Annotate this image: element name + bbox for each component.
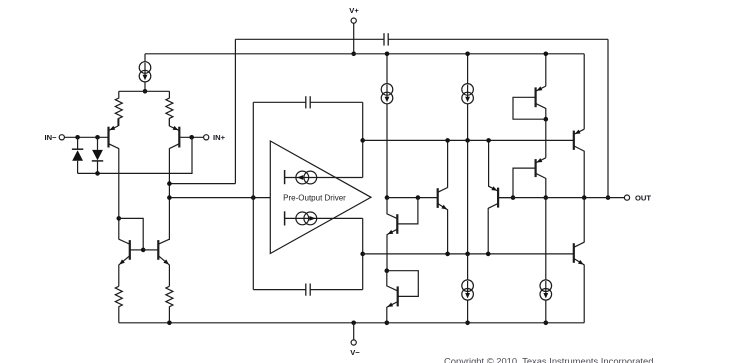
resistor R3 bbox=[115, 286, 122, 323]
node tail bbox=[143, 89, 148, 94]
diode D1 bbox=[72, 137, 83, 173]
node mirror bases bbox=[141, 248, 146, 253]
node Q9 emitter top line bbox=[486, 138, 491, 143]
wire Q12 collector to OUT bbox=[583, 198, 585, 243]
node clamp rail D2 bbox=[95, 171, 100, 176]
resistor R4 bbox=[166, 286, 173, 323]
wire IN- base line bbox=[64, 136, 107, 138]
node Q8 collector bbox=[445, 138, 450, 143]
wire Q8 emitter down bbox=[447, 210, 449, 254]
resistor R1 bbox=[115, 91, 122, 126]
wire I7 column from OUT bbox=[545, 198, 547, 280]
transistor Q2 (input PNP, non-inverting side) bbox=[169, 126, 179, 149]
resistor R2 bbox=[166, 91, 173, 126]
current source I6 column (lower) bbox=[462, 254, 474, 323]
wire Q8 collector up bbox=[447, 140, 449, 187]
node A base tie bbox=[416, 195, 421, 200]
wire V+ rail (upper supply rail) bbox=[145, 53, 584, 55]
wire compensation-cap top rail right segment bbox=[388, 38, 608, 40]
current source I7 (output sink) bbox=[540, 280, 552, 323]
transistor Q1 (input PNP, inverting side) bbox=[109, 126, 119, 149]
node rail I4 bbox=[385, 52, 390, 57]
wire I5 column middle bbox=[467, 140, 469, 254]
transistor Q5 (bias diode NPN upper) bbox=[387, 198, 418, 271]
wire Q10 collector down bbox=[545, 178, 547, 198]
svg-text:V+: V+ bbox=[349, 6, 359, 15]
transistor Q6 (bias diode NPN lower) bbox=[387, 271, 419, 323]
wire Q4 emitter down bbox=[168, 265, 170, 287]
terminal IN- bbox=[44, 133, 64, 142]
svg-text:IN+: IN+ bbox=[213, 133, 226, 142]
wire OUT line bbox=[498, 197, 624, 199]
node pre-driver feedback left bbox=[251, 195, 256, 200]
node first-stage output driver tap bbox=[167, 195, 172, 200]
transistor Q11 (output PNP top) bbox=[574, 129, 584, 151]
wire node A line bbox=[387, 197, 438, 199]
wire rail drop to input current source bbox=[144, 54, 146, 62]
node bias mid bbox=[385, 268, 390, 273]
node IN- diode D2 tap bbox=[95, 135, 100, 140]
wire Q2 emitter to R2 bbox=[168, 118, 170, 126]
wire Q12 emitter to rail bbox=[583, 265, 585, 323]
wire bottom driver output line bbox=[363, 253, 574, 255]
wire Q7 collector down bbox=[545, 108, 547, 119]
capacitor C3 bbox=[306, 284, 310, 296]
node IN+ bbox=[189, 135, 194, 140]
node IN- diode D1 tap bbox=[75, 135, 80, 140]
wire Q1 emitter to R1 bbox=[117, 118, 119, 126]
node Q3 collector / IN- collector bbox=[117, 216, 122, 221]
capacitor C1 bbox=[384, 33, 388, 45]
node cap rail to OUT line bbox=[606, 195, 611, 200]
node rail I5 bbox=[465, 52, 470, 57]
node Q7 collector bbox=[544, 117, 549, 122]
node first-stage output cap tap bbox=[167, 181, 172, 186]
svg-text:OUT: OUT bbox=[635, 193, 651, 202]
node rail V- bbox=[351, 321, 356, 326]
svg-text:Pre-Output Driver: Pre-Output Driver bbox=[283, 193, 346, 202]
node output emitters bbox=[582, 195, 587, 200]
node Q9 collector bottom line bbox=[486, 252, 491, 257]
wire first-stage output to cap rail bbox=[169, 183, 235, 185]
wire first-stage output to pre-driver bbox=[169, 197, 270, 199]
diode D2 bbox=[92, 137, 103, 173]
terminal V+ bbox=[349, 6, 359, 23]
svg-text:V−: V− bbox=[350, 348, 360, 357]
wire Q11 collector to OUT bbox=[583, 151, 585, 198]
wire current source to resistor node bbox=[144, 82, 146, 91]
node rail R4 bbox=[167, 321, 172, 326]
node I5 top line bbox=[465, 138, 470, 143]
node V+ rail junction bbox=[351, 52, 356, 57]
node top driver output bbox=[360, 138, 365, 143]
transistor Q12 (output NPN bottom) bbox=[574, 242, 584, 265]
wire Q11 emitter to rail bbox=[583, 54, 585, 129]
node I5 bottom line bbox=[465, 252, 470, 257]
wire mirror base tie bbox=[119, 218, 143, 250]
wire V+ to rail bbox=[353, 23, 355, 54]
current source I3 (lower, inside driver) bbox=[285, 211, 363, 225]
wire compensation-cap top rail left segment bbox=[235, 38, 384, 40]
wire resistor top line bbox=[119, 90, 170, 92]
wire Q7 emitter to rail bbox=[545, 54, 547, 86]
node rail I7 bbox=[544, 321, 549, 326]
wire IN+ base line bbox=[179, 136, 203, 138]
current source I4 column top bbox=[381, 54, 393, 198]
transistor Q8 (VAS NPN) bbox=[438, 188, 448, 210]
transistor Q10 (driver PNP) bbox=[513, 158, 546, 198]
wire top driver output line bbox=[363, 139, 574, 141]
terminal OUT bbox=[624, 193, 651, 202]
wire V- drop bbox=[353, 323, 355, 340]
node bottom driver output bbox=[360, 252, 365, 257]
wire Q9 collector down bbox=[487, 208, 489, 254]
svg-text:Copyright © 2010, Texas Instru: Copyright © 2010, Texas Instruments Inco… bbox=[444, 356, 653, 363]
wire clamp rail bbox=[78, 137, 192, 173]
transistor Q4 (mirror NPN output) bbox=[143, 239, 169, 265]
node Q7 emitter rail bbox=[544, 52, 549, 57]
wire bottom cap right rise bbox=[362, 218, 364, 289]
transistor Q9 (cascode PNP mid) bbox=[488, 140, 513, 208]
wire Q1 collector drop bbox=[118, 148, 120, 218]
wire bottom supply rail bbox=[119, 322, 584, 324]
wire pre-driver cap loop left bbox=[252, 102, 254, 289]
current source I1 bbox=[139, 62, 151, 82]
wire pre-driver bottom cap line bbox=[253, 289, 362, 291]
svg-text:IN−: IN− bbox=[44, 133, 57, 142]
transistor Q3 (mirror NPN, diode-connected) bbox=[119, 239, 143, 265]
wire top cap right drop bbox=[362, 102, 364, 177]
terminal V- bbox=[350, 340, 360, 357]
current source I2 (upper, inside driver) bbox=[285, 170, 363, 184]
wire cap rail right drop bbox=[607, 39, 609, 197]
node rail I6 bbox=[465, 321, 470, 326]
wire cap rail left drop bbox=[234, 39, 236, 183]
node Q8 emitter bbox=[445, 252, 450, 257]
node Q10 base OUT tie bbox=[511, 195, 516, 200]
wire Q3 collector up bbox=[118, 218, 120, 239]
wire Q10 emitter up bbox=[545, 119, 547, 158]
wire Q3 emitter down bbox=[118, 265, 120, 287]
wire Q2 collector drop bbox=[168, 148, 170, 240]
node A bias top bbox=[385, 195, 390, 200]
node Q6 emitter rail bbox=[385, 321, 390, 326]
transistor Q7 (diode PNP top-right) bbox=[513, 86, 546, 119]
current source I5 column (upper) bbox=[462, 54, 474, 141]
capacitor C2 bbox=[306, 96, 310, 108]
op-amp U1 Pre-Output Driver triangle bbox=[270, 141, 371, 254]
node Q10 collector OUT bbox=[544, 195, 549, 200]
terminal IN+ bbox=[204, 133, 226, 142]
wire pre-driver top cap line bbox=[253, 101, 362, 103]
